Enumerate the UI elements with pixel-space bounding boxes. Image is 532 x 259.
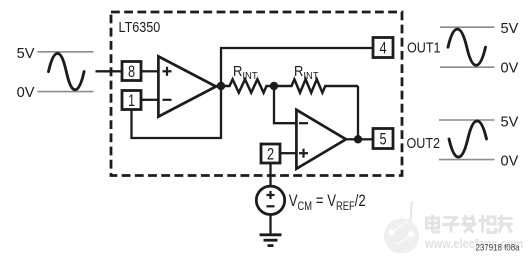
watermark logo circle [384,203,419,254]
svg-text:5V: 5V [17,46,35,62]
watermark chinese characters [428,216,514,234]
wire node B to U2 inverting input [274,86,296,123]
wire R_INT 2 down to U2 output node [357,86,359,139]
svg-text:2: 2 [267,145,274,164]
wire pin 1 to op-amp U1 - [142,99,158,101]
pin 8 [122,62,141,82]
wire U2 output to pin 5 [358,138,373,140]
wire U2 apex to node C [344,138,358,140]
svg-text:5: 5 [379,130,386,149]
svg-text:5V: 5V [501,114,519,130]
input 0V level line [38,91,94,93]
OUT2 5V level line [439,119,495,121]
svg-text:8: 8 [128,62,135,81]
wire pin 8 to op-amp U1 + [142,70,158,72]
wire U1 apex to node A [214,85,221,87]
wire pin 2 down to VCM source [269,163,271,188]
svg-text:4: 4 [379,39,386,58]
svg-text:0V: 0V [17,85,35,101]
node C junction dot at U2 output [354,135,362,143]
OUT1 5V level line [440,26,495,28]
svg-text:237918 f08a: 237918 f08a [476,242,520,253]
voltage source VCM [256,186,284,214]
OUT2 sine wave (inverted) [449,121,487,157]
node A junction dot at U1 output [217,82,225,90]
wire U1 feedback to pin 1 [132,86,222,138]
svg-text:LT6350: LT6350 [119,18,161,35]
op-amp U1 [158,56,216,116]
input sine wave [49,53,85,89]
svg-text:0V: 0V [501,153,519,169]
resistor R_INT 2 [274,79,358,92]
OUT1 0V level line [440,66,495,68]
dashed box LT6350 [111,12,402,176]
pin 1 [122,91,141,111]
input 5V level line [38,51,94,53]
svg-text:0V: 0V [501,61,519,77]
resistor R_INT 1 [221,79,274,92]
OUT1 sine wave [448,29,486,65]
node B junction dot [270,82,278,90]
wire U1 output riser to top rail [221,48,372,86]
svg-text:5V: 5V [501,21,519,37]
pin 2 [261,144,280,164]
pin 5 [373,129,393,150]
svg-text:OUT2: OUT2 [407,135,441,151]
svg-text:1: 1 [128,91,135,110]
wire VCM source to ground [269,214,271,234]
pin 4 [373,38,393,59]
OUT2 0V level line [439,159,495,161]
wire pin 2 to U2 + input [281,152,297,154]
wire input to pin 8 [96,70,123,72]
ground [260,235,282,246]
op-amp U2 [296,110,346,169]
svg-text:OUT1: OUT1 [407,40,441,56]
